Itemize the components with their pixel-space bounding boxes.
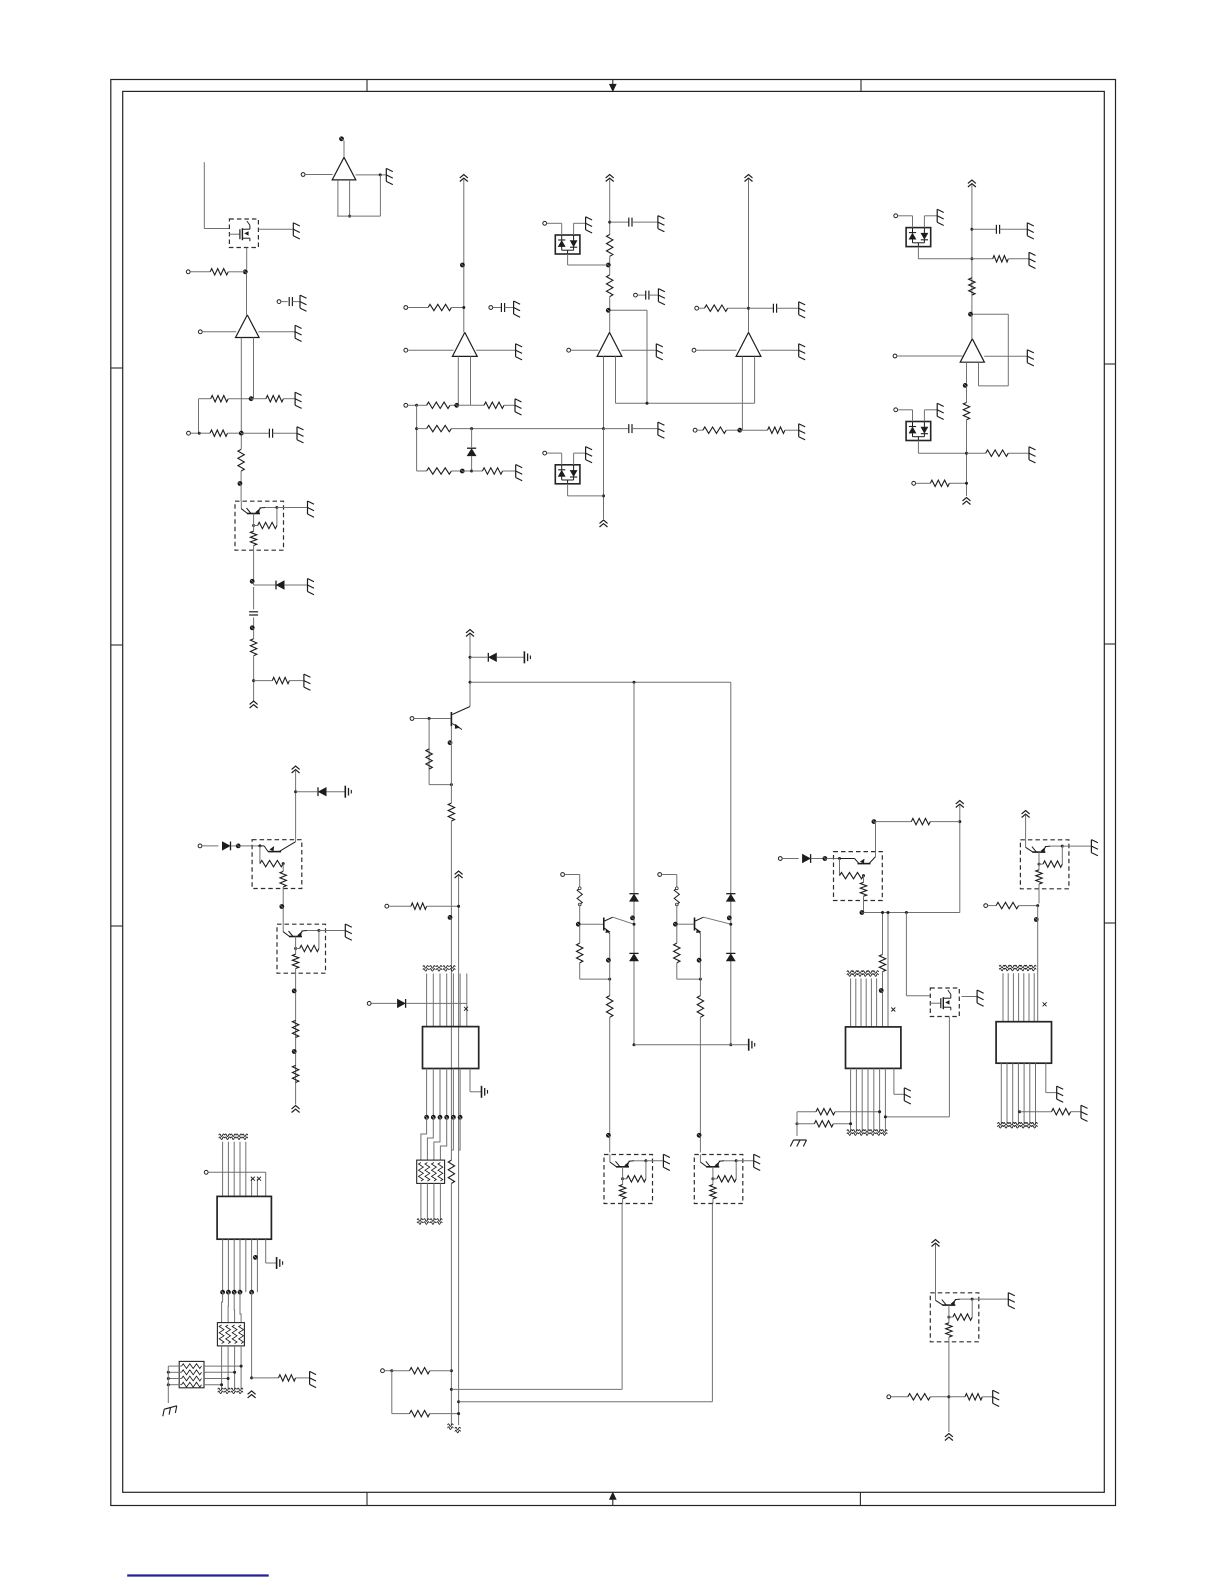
- wire D5 out: [917, 247, 919, 259]
- junction parallel a: [881, 911, 884, 914]
- wires RN1 bottom with squiggle ends: [417, 1183, 442, 1224]
- wire col1 node to opamp: [246, 274, 248, 315]
- wire U9 to ground: [1046, 1063, 1056, 1092]
- earth ground D7: [345, 786, 351, 798]
- node col3 dd1: [606, 263, 611, 268]
- node col2 row2: [454, 403, 459, 408]
- wire long vertical bus 2: [450, 821, 452, 1160]
- wire U2 feedback bottom: [337, 215, 381, 217]
- junction emitter cluster B: [699, 978, 702, 981]
- resistor network RN2 resistors: [219, 1325, 243, 1344]
- supply rail end col5: [963, 498, 971, 505]
- supply rail end col3: [600, 520, 608, 527]
- ground D4: [586, 447, 593, 463]
- wire U6 leg right: [978, 362, 980, 386]
- input terminal bus bottom: [381, 1369, 385, 1373]
- wire U3 leg left: [457, 356, 459, 405]
- wire node down cluster A: [579, 926, 581, 943]
- junction R35 left: [796, 1122, 799, 1125]
- resistor R21: [963, 403, 969, 420]
- input terminal Q10: [984, 904, 988, 908]
- wire parallel a: [882, 913, 884, 955]
- resistor R29: [411, 903, 427, 909]
- wire node-Q8: [827, 858, 834, 860]
- resistor R13: [482, 468, 502, 474]
- IC U8 box: [846, 1027, 901, 1069]
- junction Q10 row: [1036, 904, 1039, 907]
- wire U6 right: [984, 355, 1027, 357]
- ground RN3: [161, 1406, 178, 1416]
- resistor network RN1 resistors: [419, 1163, 443, 1182]
- resistor R35: [814, 1121, 833, 1127]
- wire divider bottom: [429, 784, 451, 786]
- terminal node row U10: [220, 1290, 254, 1295]
- resistor R7: [272, 677, 289, 683]
- wire bus row left: [389, 905, 411, 907]
- node above driver cluster A: [606, 1133, 611, 1138]
- wire bb2 to R31: [392, 1413, 410, 1415]
- wire row2 left: [190, 432, 199, 434]
- wire bb to R30: [392, 1370, 410, 1372]
- supply rail TR: [956, 801, 964, 808]
- input terminal col5 row5: [912, 481, 916, 485]
- wire R39 to junction: [930, 1396, 949, 1398]
- wire Rb down cluster A: [579, 963, 581, 979]
- wires RN2 bottom with squiggle ends: [218, 1346, 243, 1394]
- junction midleft diode row: [294, 790, 297, 793]
- ground C9: [1027, 223, 1034, 239]
- junction U9 pin row: [1018, 1110, 1021, 1113]
- resistor R33: [879, 955, 885, 972]
- terminal node row U7: [424, 1115, 462, 1120]
- wire col5 fb bottom: [979, 385, 1009, 387]
- op-amp U6: [960, 339, 984, 362]
- resistor R11: [427, 425, 452, 431]
- ground D3: [586, 217, 593, 233]
- wire Q9 source down: [948, 1017, 950, 1117]
- supply rail col2: [460, 175, 468, 182]
- wire FET corner: [906, 995, 930, 997]
- cap C4 terminal: [489, 306, 493, 310]
- terminal node above U2: [339, 136, 344, 141]
- wire coil down cluster A: [579, 905, 581, 923]
- junction col2 row2: [415, 404, 418, 407]
- wire U2 feedback right: [379, 175, 381, 216]
- wire Q8 emitter down: [863, 901, 865, 911]
- input terminal U1: [198, 330, 202, 334]
- wire ground return row: [634, 1044, 748, 1046]
- wire parallel b: [887, 913, 889, 1027]
- wire Q11 row left: [891, 1396, 908, 1398]
- ground right of Q7: [754, 1154, 761, 1170]
- border outer frame: [111, 80, 1116, 1506]
- wire R19 to ground: [1008, 258, 1028, 260]
- input terminal col1 R1 row: [186, 270, 190, 274]
- ground R40: [993, 1390, 1000, 1406]
- transistor Q10 dashed box: [1020, 840, 1091, 889]
- capacitor C1: [289, 297, 292, 306]
- input terminal U6: [893, 354, 897, 358]
- wire U7 pin to earth: [470, 1069, 481, 1092]
- wire center rail lower: [469, 684, 471, 707]
- diode D9: [488, 653, 496, 662]
- junction row2: [198, 432, 201, 435]
- wire Q9 to ground: [962, 996, 977, 998]
- wire emitter return Q6 up: [621, 1203, 623, 1390]
- junctions RN3 bus: [167, 1371, 170, 1386]
- right section tick y=364: [1104, 363, 1115, 365]
- supply rail col4: [745, 175, 753, 182]
- wire R7 to ground: [289, 680, 303, 682]
- ground R18: [799, 424, 806, 440]
- junction diode chain bottom cluster A: [633, 1043, 636, 1046]
- wire midleft rail: [295, 771, 297, 840]
- wire D5 input: [898, 215, 913, 217]
- dual diode D6 box: [906, 422, 931, 441]
- wire col1 down1: [240, 435, 242, 449]
- wires IC U8 bottom pins with squiggle ends: [847, 1068, 887, 1135]
- wire D3 right pin: [573, 223, 575, 235]
- coil L cluster A: [577, 887, 582, 906]
- wire C6 left: [637, 294, 646, 296]
- diode chain lower cluster A: [629, 953, 638, 961]
- wire col2 rail: [463, 179, 465, 332]
- input terminal D6: [894, 408, 898, 412]
- diode D7: [318, 787, 326, 796]
- wire D10 to IC: [406, 1002, 467, 1004]
- junction Q5 base: [428, 717, 431, 720]
- resistor R37: [1052, 1109, 1071, 1115]
- wire to junction cluster B: [677, 978, 701, 980]
- wire R12 to node: [451, 470, 461, 472]
- resistor pack RN3 resistors: [182, 1364, 202, 1387]
- resistor Rb cluster B: [674, 943, 680, 963]
- diode D10: [397, 999, 405, 1008]
- ground C6: [658, 289, 665, 305]
- wire R23 to rail: [949, 482, 966, 484]
- wires IC U9 bottom pins with squiggle ends: [998, 1063, 1038, 1128]
- capacitor C8: [773, 304, 776, 313]
- wire col1 stub vertical: [203, 162, 205, 228]
- supply rail end col1: [250, 701, 258, 708]
- wires RN3 connections: [168, 1365, 242, 1387]
- wire R3 to ground: [283, 398, 294, 400]
- ground right of Q2: [308, 501, 315, 517]
- diode chain upper cluster A: [629, 894, 638, 902]
- wire U10 pin5 long: [251, 1292, 253, 1378]
- wire U6 leg left: [966, 362, 968, 383]
- node emitter cluster A: [606, 958, 611, 963]
- transistor Q7 dashed box: [694, 1155, 753, 1204]
- op-amp U2: [332, 157, 356, 180]
- junction bb: [390, 1369, 393, 1372]
- wire U7 pin5 merge: [451, 1117, 453, 1150]
- node col1 fb: [249, 396, 254, 401]
- earth ground D9: [524, 651, 530, 663]
- resistor R12: [427, 468, 452, 474]
- wire emitter cluster A: [609, 934, 611, 980]
- wire C6 right: [649, 294, 658, 296]
- input terminal U3: [404, 348, 408, 352]
- input terminal cluster A: [561, 873, 565, 877]
- wire D6 right pin: [923, 410, 925, 422]
- node col1 below Q2: [250, 579, 255, 584]
- wire long vertical bus 3: [450, 1183, 452, 1425]
- node above driver cluster B: [697, 1133, 702, 1138]
- wire U1 leg right: [253, 338, 255, 399]
- resistor R26: [426, 749, 432, 769]
- wire U2 top terminal: [343, 141, 345, 158]
- wire col3 to node2: [609, 297, 611, 309]
- resistor R5: [238, 449, 244, 471]
- wire long vertical bus: [450, 726, 452, 803]
- wire D11-node: [811, 858, 823, 860]
- wire col3 fb right: [646, 310, 648, 403]
- wire Q3 to Q4: [282, 889, 284, 925]
- wire center rail: [469, 634, 471, 682]
- resistor R27: [448, 803, 454, 821]
- wire D6 out to rail: [918, 452, 966, 454]
- wire U3 -input: [408, 349, 454, 351]
- wire R4 to node: [228, 432, 241, 434]
- input terminal bus row: [385, 904, 389, 908]
- earth ground return: [749, 1039, 755, 1051]
- junction bus at diode chain A: [633, 681, 636, 684]
- wire C5 right: [632, 221, 657, 223]
- x mark U8 pin: [891, 1008, 895, 1012]
- wire C9 left: [972, 228, 997, 230]
- node U10 pin6: [253, 1255, 258, 1260]
- wire U4 leg right: [615, 356, 617, 403]
- resistor R8: [428, 304, 451, 310]
- wire D3 to ground: [574, 222, 586, 224]
- wire col1 fb corner: [199, 398, 211, 400]
- capacitor C9: [996, 225, 999, 234]
- wire R30 to bus: [430, 1370, 452, 1372]
- input terminal cluster B: [658, 873, 662, 877]
- wire C9 right: [1000, 228, 1027, 230]
- resistor R16: [705, 305, 728, 311]
- wire emitter down cluster B: [699, 979, 701, 996]
- wire bus row right: [427, 905, 459, 907]
- top section tick x=861: [860, 80, 862, 92]
- wire row4 to R13: [472, 470, 483, 472]
- wire col1 down4: [253, 617, 255, 638]
- node col1 above Q2: [238, 481, 243, 486]
- ground right of Q11: [1008, 1293, 1015, 1309]
- bus end squiggle A: [448, 1424, 454, 1430]
- ground U3 right: [516, 344, 523, 360]
- wire D6 out: [917, 441, 919, 454]
- ground D1: [308, 579, 315, 595]
- wire U3 right: [476, 349, 515, 351]
- node col3 fb: [606, 308, 611, 313]
- resistor R36: [996, 902, 1019, 908]
- resistor R22: [986, 450, 1009, 456]
- wire to diode D1 row: [254, 584, 276, 586]
- wire D8-node: [231, 845, 237, 847]
- wire Q10 row left: [988, 905, 997, 907]
- wire D5 right pin: [923, 216, 925, 228]
- resistor network RN2 box: [217, 1323, 244, 1346]
- wire col3 node to opamp: [609, 312, 611, 332]
- wire D3 input: [547, 222, 562, 224]
- ground below R35: [790, 1140, 806, 1147]
- wire D7 to earth: [326, 791, 344, 793]
- wires IC U9 top pins with squiggles: [999, 965, 1036, 1022]
- wire col4 rail: [748, 179, 750, 332]
- capacitor C6: [646, 291, 649, 300]
- wire col5 fb right: [1007, 314, 1009, 386]
- junction U2 right: [379, 173, 382, 176]
- right section tick y=923: [1104, 922, 1115, 924]
- ground R13: [516, 465, 523, 481]
- node emitter cluster B: [697, 958, 702, 963]
- supply rail col5: [968, 180, 976, 187]
- wire R21 down: [966, 420, 968, 496]
- input terminal col1 row2: [187, 431, 191, 435]
- junction diode D9 row: [469, 656, 472, 659]
- wire Q5 base divider: [428, 719, 430, 785]
- wire Q8 input: [782, 858, 799, 860]
- wire R34 to pin: [835, 1111, 880, 1113]
- wire to junction cluster A: [580, 978, 610, 980]
- resistor R17: [703, 427, 726, 433]
- ground R37: [1081, 1105, 1088, 1121]
- junction diode D2 top: [470, 427, 473, 430]
- resistor R40: [965, 1394, 982, 1400]
- wire C8 right: [777, 307, 799, 309]
- wire R31 to bus2: [430, 1413, 459, 1415]
- wire Q5 base: [414, 718, 451, 720]
- IC U7 box: [423, 1027, 479, 1069]
- resistor R18: [768, 427, 785, 433]
- input terminal Q11: [887, 1395, 891, 1399]
- wire D6 input: [898, 409, 913, 411]
- wire D4 out: [567, 484, 569, 496]
- dual diode D4 box: [555, 465, 580, 484]
- junction pin5 row: [250, 1376, 253, 1379]
- node base cluster A: [576, 922, 581, 927]
- junction diode chain bottom cluster B: [729, 1043, 732, 1046]
- wire coil down cluster B: [676, 905, 678, 923]
- wire to driver cluster A: [609, 1017, 611, 1152]
- wire U3 leg right: [470, 356, 472, 405]
- wire col1 into Q2: [240, 485, 242, 501]
- junction FET source row: [884, 1115, 887, 1118]
- junction col2 rail: [462, 306, 465, 309]
- node Q8 collector: [872, 819, 877, 824]
- right section tick y=644: [1104, 643, 1115, 645]
- wires U10 to resistor network: [222, 1292, 242, 1322]
- node diode chain cluster B: [727, 916, 732, 921]
- junction TR mid: [905, 911, 908, 914]
- junction long bus left: [469, 681, 472, 684]
- capacitor C3: [249, 612, 258, 615]
- wire U5 right: [761, 349, 799, 351]
- input terminal D5: [894, 214, 898, 218]
- junction divider: [450, 783, 453, 786]
- junction parallel b: [887, 911, 890, 914]
- wire col3 rail mid: [609, 256, 611, 263]
- input terminal D4: [543, 451, 547, 455]
- wire D5 to ground: [924, 215, 936, 217]
- wire node down cluster B: [676, 926, 678, 943]
- junction bus bottom row1: [450, 1369, 453, 1372]
- wire col2 row4 stub: [417, 470, 427, 472]
- ground right of Q10: [1091, 840, 1098, 856]
- resistor R2: [211, 396, 229, 402]
- wire diode chain cluster A: [633, 682, 635, 1044]
- junction col2 row4: [470, 470, 473, 473]
- ground U8: [904, 1088, 911, 1104]
- wire R37 to ground: [1071, 1111, 1081, 1113]
- op-amp U5: [736, 332, 761, 356]
- junction TR top: [958, 820, 961, 823]
- wire bb left: [384, 1370, 391, 1372]
- transistor Q8 dashed box: [834, 852, 883, 901]
- resistor R31: [410, 1410, 430, 1416]
- wire R38 to ground: [296, 1377, 310, 1379]
- wire col5 rail: [971, 185, 973, 339]
- left section tick y=645: [111, 644, 123, 646]
- input terminal U10: [204, 1170, 208, 1174]
- ground C8: [799, 302, 806, 318]
- wire D3 out to node: [568, 264, 607, 266]
- resistor pack RN3 box: [179, 1361, 204, 1387]
- wire U5 -input: [696, 349, 737, 351]
- top section tick x=367: [366, 80, 368, 92]
- resistor R3: [266, 396, 284, 402]
- wire col3 to R15: [609, 267, 611, 275]
- wire emitter return Q7: [459, 1401, 713, 1403]
- diode D8: [222, 842, 230, 851]
- wire R10 to ground: [504, 404, 515, 406]
- ground U9: [1057, 1086, 1064, 1102]
- node below Q4 a: [292, 989, 297, 994]
- ground C7: [658, 422, 665, 438]
- wire BR rail: [935, 1244, 937, 1293]
- node base cluster B: [673, 922, 678, 927]
- wire row4 node-junction: [464, 470, 472, 472]
- wires IC U7 top pins: [427, 974, 467, 1027]
- FET Q9 dashed box: [930, 988, 960, 1017]
- diode D11: [802, 854, 810, 863]
- transistor cluster B: [695, 917, 731, 933]
- wire row to R40: [949, 1396, 965, 1398]
- wire R11 stub: [417, 428, 427, 430]
- junction col2 row3: [415, 427, 418, 430]
- resistor R25: [292, 1065, 298, 1082]
- wire base cluster B: [678, 923, 694, 925]
- wire U1 right: [258, 331, 294, 333]
- resistor Rb cluster A: [577, 943, 583, 963]
- wire D2 lower: [471, 456, 473, 471]
- node col2 rail: [460, 263, 465, 268]
- node below Q10: [1034, 917, 1039, 922]
- wire col2 long row3: [451, 428, 603, 430]
- wire Q2 to ground: [277, 507, 307, 509]
- supply rail center: [466, 630, 474, 637]
- wire R17 to node: [726, 429, 738, 431]
- ground U5 right: [799, 344, 806, 360]
- wire C4 left: [493, 307, 502, 309]
- wire R40 to ground: [982, 1396, 992, 1398]
- wire dd row left: [918, 258, 972, 260]
- wire C5 left: [610, 221, 629, 223]
- wire row2 to R9: [417, 404, 427, 406]
- transistor Q3 dashed box: [252, 840, 302, 889]
